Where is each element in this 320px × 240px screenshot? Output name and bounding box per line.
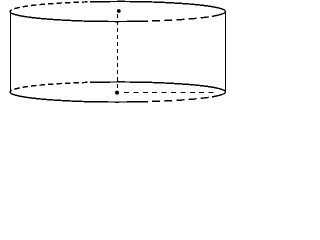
right side line	[225, 12, 227, 93]
bottom ellipse lower tip solid arc	[212, 92, 226, 97]
bottom ellipse upper-left dashed arc	[10, 82, 90, 92]
top center dot	[117, 9, 121, 13]
cylinder diagram	[0, 0, 234, 108]
left side line	[10, 12, 12, 93]
dashed axis line	[117, 14, 119, 90]
top ellipse lower tip solid arc	[212, 12, 226, 17]
top ellipse upper solid arc	[90, 2, 226, 12]
top ellipse lower-right dashed arc	[147, 16, 212, 21]
bottom ellipse lower-right dashed arc	[147, 97, 212, 102]
bottom ellipse upper solid arc	[90, 82, 226, 92]
bottom ellipse lower-left solid arc	[10, 92, 147, 102]
top ellipse upper-left dashed arc	[10, 2, 90, 12]
bottom center dot	[115, 91, 119, 95]
dashed radius line	[124, 92, 214, 94]
top ellipse lower-left solid arc	[10, 12, 147, 22]
